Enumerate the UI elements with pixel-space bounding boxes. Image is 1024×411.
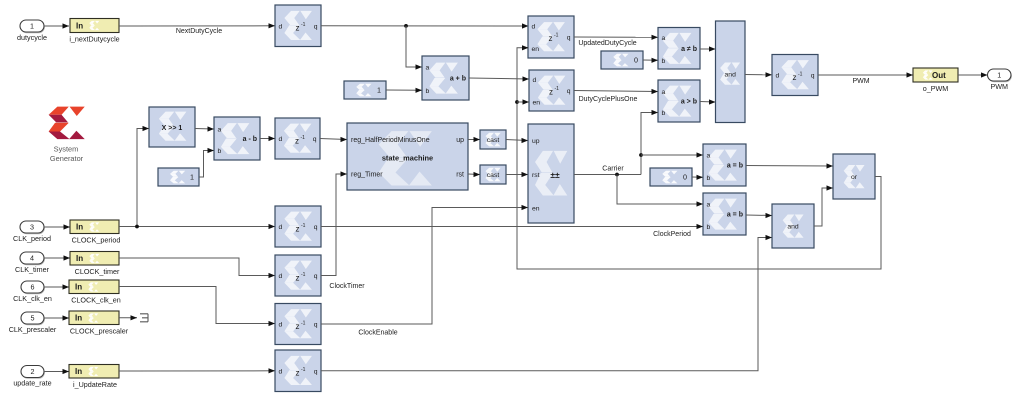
svg-text:q: q [567, 35, 571, 42]
svg-text:b: b [662, 110, 666, 117]
wire port1 to i_nextDutycycle [44, 25, 69, 27]
svg-text:en: en [532, 46, 540, 53]
constant 0 (for a!=b) [601, 51, 643, 69]
delay D5 z-1 [275, 118, 320, 159]
svg-text:6: 6 [31, 283, 35, 292]
svg-text:q: q [811, 73, 815, 80]
delay D4 (PWM) z-1 [772, 55, 818, 96]
svg-text:d: d [532, 23, 536, 30]
svg-text:DutyCyclePlusOne: DutyCyclePlusOne [579, 96, 638, 103]
svg-text:ClockTimer: ClockTimer [329, 283, 365, 290]
wire CLOCK_timer gateway to delay D7 [119, 258, 275, 276]
wire UpdatedDutyCycle D2 q to a!=b a [574, 36, 658, 38]
svg-text:z: z [296, 273, 300, 282]
wire ClockPeriod D6 q to a=b#2 b (long) [321, 226, 703, 228]
wire junction down to adder a [406, 26, 422, 67]
wire CLOCK_prescaler to terminator [119, 317, 137, 319]
svg-text:and: and [787, 223, 799, 230]
svg-text:1: 1 [377, 86, 381, 95]
wire constant0 to a=b#1 b [692, 176, 703, 178]
svg-text:q: q [313, 136, 317, 143]
input port 4 CLK_timer [15, 252, 50, 274]
input port 5 CLK_prescaler [9, 312, 57, 334]
svg-text:-1: -1 [301, 320, 306, 326]
subtractor a - b [214, 117, 260, 160]
wire CLOCK_period up to X>>1 input [137, 129, 149, 227]
svg-text:a ≠ b: a ≠ b [681, 46, 697, 53]
svg-text:z: z [296, 322, 300, 331]
svg-text:-1: -1 [301, 272, 306, 278]
svg-text:o_PWM: o_PWM [923, 84, 949, 93]
wire ClockEnable D8 q to counter en [321, 208, 528, 325]
constant 0 (for a=b#1) [650, 168, 692, 186]
svg-text:5: 5 [31, 314, 35, 323]
wire port3 to CLOCK_period gateway [44, 226, 70, 228]
svg-text:d: d [279, 224, 283, 231]
output port 1 PWM [988, 69, 1012, 91]
svg-text:-1: -1 [555, 86, 560, 92]
svg-text:z: z [296, 224, 300, 233]
wire counter out Carrier [574, 174, 641, 176]
svg-text:en: en [533, 99, 541, 106]
svg-text:-1: -1 [301, 135, 306, 141]
svg-text:i_nextDutycycle: i_nextDutycycle [69, 35, 119, 44]
wire D1 q to delay-en D2 d [321, 25, 529, 27]
svg-text:i_UpdateRate: i_UpdateRate [73, 380, 117, 389]
wire Carrier to a=b#1 a [641, 154, 703, 156]
delay-en D2 (UpdatedDutyCycle) [528, 16, 574, 58]
svg-text:a: a [707, 202, 711, 209]
wire ClockTimer D7 q to state_machine reg_Timer [321, 174, 347, 276]
svg-text:or: or [851, 174, 858, 181]
svg-text:CLK_clk_en: CLK_clk_en [13, 294, 52, 303]
delay D7 (ClockTimer) z-1 [275, 255, 321, 296]
svg-text:up: up [456, 137, 464, 144]
svg-text:a - b: a - b [243, 136, 257, 143]
wire NextDutyCycle gateway to delay D1 [119, 25, 275, 27]
relational a != b [658, 28, 700, 70]
wire Carrier down to a=b#2 a [617, 175, 703, 205]
terminator (unconnected) symbol [140, 314, 148, 322]
wire constant0 to a!=b b [643, 59, 658, 61]
logic or U3 [833, 154, 875, 199]
node junction enable net [515, 100, 519, 104]
input port 3 CLK_period [13, 221, 51, 243]
svg-text:q: q [314, 23, 318, 30]
svg-text:q: q [314, 224, 318, 231]
svg-text:a: a [218, 127, 222, 134]
svg-text:z: z [549, 87, 553, 96]
wire state_machine rst to cast2 [468, 173, 480, 176]
svg-text:0: 0 [683, 173, 687, 182]
svg-text:d: d [533, 77, 537, 84]
svg-text:In: In [75, 367, 82, 376]
wire or feedback to delay enables [517, 48, 881, 269]
svg-text:ClockEnable: ClockEnable [358, 330, 397, 337]
wire port4 to CLOCK_timer gateway [44, 257, 70, 259]
wire a=b#2 to and2 input 1 [746, 214, 772, 217]
svg-text:-1: -1 [301, 367, 306, 373]
wire DutyCyclePlusOne D3 q to a>b a [574, 91, 658, 92]
wire UpdateRate D9 q to and2 input [321, 238, 772, 371]
svg-text:PWM: PWM [990, 82, 1008, 91]
svg-text:a > b: a > b [681, 99, 697, 106]
svg-text:cast: cast [487, 137, 500, 144]
svg-text:b: b [707, 175, 711, 182]
svg-text:d: d [776, 73, 780, 80]
wire cast1 to counter up [506, 140, 528, 141]
svg-text:and: and [725, 72, 737, 79]
node junction CLOCK_period [135, 225, 139, 229]
cast block 1 [480, 130, 506, 149]
svg-text:d: d [279, 23, 283, 30]
svg-text:CLOCK_clk_en: CLOCK_clk_en [71, 296, 121, 305]
svg-text:CLOCK_timer: CLOCK_timer [75, 267, 120, 276]
delay D9 (UpdateRate) z-1 [275, 350, 321, 392]
constant 1 (for a+b) [344, 81, 386, 99]
svg-text:X >> 1: X >> 1 [162, 125, 183, 132]
svg-text:q: q [567, 88, 571, 95]
wire CLOCK_period gateway to delay D6 [119, 226, 275, 228]
svg-text:a: a [662, 35, 666, 42]
svg-text:In: In [76, 21, 83, 30]
svg-text:dutycycle: dutycycle [17, 33, 47, 42]
svg-text:up: up [532, 138, 540, 145]
svg-text:q: q [314, 368, 318, 375]
delay D6 (ClockPeriod) z-1 [275, 206, 321, 247]
wire and2 to or input 2 [814, 188, 833, 226]
gateway In i_nextDutycycle [69, 19, 119, 44]
wire enable junction to D3 en [517, 101, 529, 103]
svg-text:CLOCK_period: CLOCK_period [72, 236, 121, 245]
System Generator token (Xilinx logo) [49, 107, 85, 163]
node junction Carrier [615, 173, 619, 177]
shift block X >> 1 [149, 107, 195, 147]
logic and U1 (tall) [716, 21, 746, 123]
svg-text:q: q [314, 273, 318, 280]
wire D5 q to state_machine reg_HalfPeriodMinusOne [320, 139, 347, 140]
svg-text:q: q [314, 322, 318, 329]
svg-text:update_rate: update_rate [13, 379, 51, 388]
adder a+b [422, 56, 469, 100]
wire constant1 to a-b b [199, 151, 214, 178]
svg-text:b: b [426, 88, 430, 95]
logic and U2 [772, 204, 814, 248]
delay D8 (ClockEnable) z-1 [275, 304, 321, 345]
svg-text:a = b: a = b [727, 163, 743, 170]
svg-text:±±: ±± [550, 170, 560, 180]
svg-text:CLK_period: CLK_period [13, 234, 51, 243]
svg-text:-1: -1 [301, 223, 306, 229]
cast block 2 [480, 165, 506, 184]
wire o_PWM to output port 1 [958, 74, 988, 76]
svg-text:a = b: a = b [727, 212, 743, 219]
svg-text:reg_Timer: reg_Timer [351, 172, 383, 179]
svg-text:In: In [75, 314, 82, 323]
wire constant1 to adder b [386, 89, 422, 91]
svg-text:0: 0 [634, 56, 638, 65]
svg-text:In: In [76, 254, 83, 263]
svg-text:b: b [662, 58, 666, 65]
wire CLOCK_clk_en gateway to delay D8 [119, 287, 275, 324]
svg-text:-1: -1 [798, 71, 803, 77]
svg-text:2: 2 [31, 367, 35, 376]
svg-text:a: a [662, 89, 666, 96]
delay D1 z-1 [275, 5, 321, 47]
svg-text:-1: -1 [554, 32, 559, 38]
gateway In i_UpdateRate [69, 365, 119, 390]
svg-text:d: d [279, 368, 283, 375]
svg-text:In: In [76, 223, 83, 232]
svg-text:d: d [279, 273, 283, 280]
svg-text:en: en [532, 205, 540, 212]
constant 1 (for a-b) [158, 168, 199, 186]
svg-text:Generator: Generator [50, 154, 84, 163]
svg-text:Carrier: Carrier [602, 166, 624, 173]
wire PWM D4 q to Out gateway [818, 74, 913, 76]
svg-text:1: 1 [997, 71, 1001, 80]
MCode block state_machine [347, 123, 468, 190]
wire Carrier up to a>b b [641, 113, 658, 175]
wire and1 to delay D4 [745, 74, 772, 76]
svg-text:1: 1 [30, 22, 34, 31]
delay-en D3 (DutyCyclePlusOne) [529, 70, 574, 111]
svg-text:CLOCK_prescaler: CLOCK_prescaler [70, 327, 129, 336]
svg-text:cast: cast [487, 172, 500, 179]
relational a > b [658, 80, 700, 122]
gateway In CLOCK_timer [70, 252, 120, 277]
wire i_UpdateRate gateway to delay D9 [119, 370, 275, 372]
svg-text:state_machine: state_machine [382, 154, 433, 163]
svg-text:1: 1 [190, 173, 194, 182]
wire adder a+b to delay-en D3 d [469, 78, 529, 79]
counter block (Carrier) [528, 124, 574, 223]
svg-text:PWM: PWM [852, 78, 869, 85]
svg-text:a + b: a + b [450, 76, 466, 83]
svg-text:CLK_prescaler: CLK_prescaler [9, 325, 57, 334]
wire a!=b out to and1 [700, 48, 716, 50]
svg-text:a: a [707, 153, 711, 160]
input port 6 CLK_clk_en [13, 281, 52, 303]
gateway In CLOCK_clk_en [69, 280, 121, 305]
svg-text:ClockPeriod: ClockPeriod [653, 231, 691, 238]
svg-text:4: 4 [30, 254, 34, 263]
wire port2 to i_UpdateRate gateway [44, 371, 69, 373]
wire port6 to CLOCK_clk_en gateway [44, 286, 69, 288]
svg-text:z: z [295, 136, 299, 145]
wire state_machine up to cast1 [468, 139, 480, 141]
svg-text:z: z [296, 369, 300, 378]
svg-text:Out: Out [932, 71, 946, 80]
wire cast2 to counter rst [506, 174, 528, 176]
wire port5 to CLOCK_prescaler gateway [44, 317, 69, 319]
wire a-b to delay D5 [260, 138, 275, 140]
svg-text:d: d [279, 322, 283, 329]
wire a>b out to and1 [700, 101, 716, 104]
svg-text:System: System [54, 145, 79, 154]
svg-text:NextDutyCycle: NextDutyCycle [176, 28, 222, 35]
relational a = b #2 [703, 193, 746, 235]
gateway In CLOCK_prescaler [69, 311, 129, 336]
svg-text:b: b [707, 224, 711, 231]
svg-text:z: z [793, 73, 797, 82]
svg-text:d: d [279, 136, 283, 143]
svg-text:-1: -1 [301, 22, 306, 28]
gateway In CLOCK_period [70, 220, 120, 245]
svg-text:UpdatedDutyCycle: UpdatedDutyCycle [578, 40, 636, 47]
wire a=b#1 to or input 1 [746, 165, 833, 168]
svg-text:z: z [549, 34, 553, 43]
svg-text:rst: rst [532, 172, 540, 179]
relational a = b #1 [703, 144, 746, 186]
input port 2 update_rate [13, 366, 51, 388]
svg-text:a: a [426, 65, 430, 72]
svg-text:CLK_timer: CLK_timer [15, 265, 50, 274]
svg-text:In: In [75, 283, 82, 292]
svg-text:reg_HalfPeriodMinusOne: reg_HalfPeriodMinusOne [351, 137, 430, 144]
node junction Carrier upper [639, 153, 643, 157]
svg-text:rst: rst [456, 172, 464, 179]
svg-text:3: 3 [30, 223, 34, 232]
svg-text:b: b [218, 148, 222, 155]
svg-text:z: z [296, 24, 300, 33]
wire X>>1 to a-b a [195, 128, 214, 131]
node junction NextDutyCycleDelayed [404, 24, 408, 28]
input port 1 dutycycle [17, 20, 47, 42]
gateway Out o_PWM [913, 68, 958, 93]
